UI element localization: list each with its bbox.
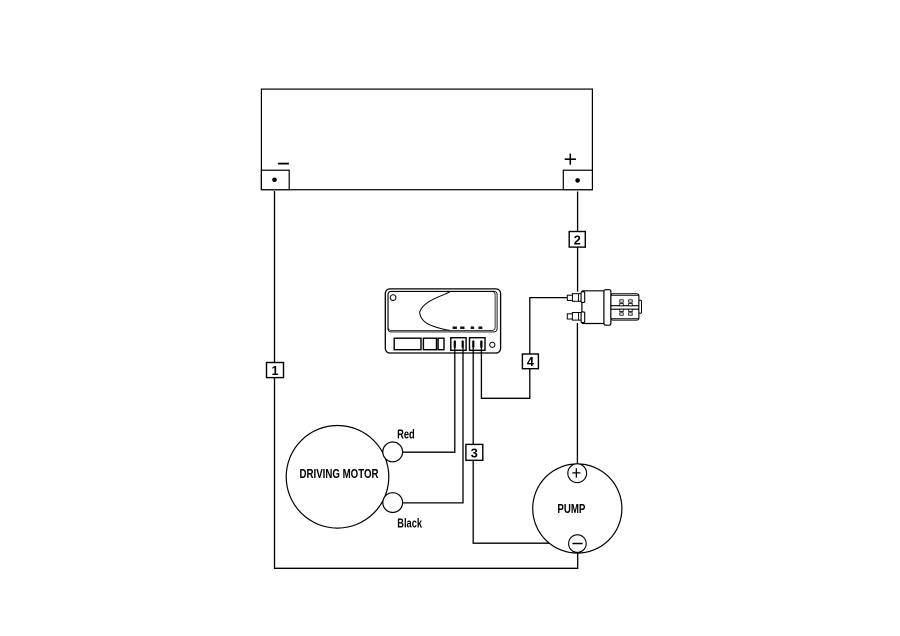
battery minus label (278, 163, 289, 165)
solenoid K1 coil terminal clip lower-left (620, 309, 623, 311)
solenoid K1 middle band bottom line (611, 308, 639, 310)
controller pin M1 (454, 340, 456, 348)
solenoid K1 coil cylinder (611, 294, 639, 320)
solenoid K1 bottom stud tip (567, 314, 572, 319)
solenoid K1 coil terminal clip upper-right (629, 300, 633, 302)
controller terminal block B (470, 338, 486, 351)
label 2 box (569, 232, 585, 248)
wire battery negative to pump negative (275, 191, 578, 568)
controller pin B+ (480, 340, 482, 348)
label 3 box (466, 444, 483, 460)
wire controller B+ to solenoid top stud (481, 298, 567, 399)
battery negative terminal box (261, 170, 289, 190)
controller top panel inner line (388, 292, 495, 331)
label 4 box (522, 354, 538, 369)
solenoid K1 coil terminal clip lower-right (629, 309, 633, 311)
wire controller B- to pump negative (473, 347, 569, 543)
controller pin name M2 (460, 327, 464, 330)
pump positive terminal circle (568, 464, 587, 483)
solenoid K1 main body (582, 291, 604, 324)
svg-text:DRIVING MOTOR: DRIVING MOTOR (300, 466, 379, 481)
solenoid K1 coil top inner line (611, 294, 639, 296)
controller slot 2 (423, 338, 436, 350)
solenoid K1 mounting bracket (604, 290, 611, 326)
svg-text:2: 2 (574, 233, 581, 247)
battery negative terminal dot (272, 178, 277, 183)
driving motor M1 circle (286, 426, 389, 529)
battery positive terminal box (563, 170, 592, 190)
pump positive terminal plus sign (572, 468, 580, 477)
battery plus label (565, 154, 576, 165)
wire controller M1 to motor red terminal (403, 347, 455, 452)
controller slot 3 (438, 338, 444, 350)
solenoid K1 middle band top line (611, 305, 639, 307)
svg-text:1: 1 (271, 364, 278, 378)
controller pin name M1 (453, 327, 457, 330)
controller pin M2 (462, 340, 464, 348)
pump negative terminal minus sign (573, 543, 583, 545)
controller decorative curve (420, 292, 450, 331)
solenoid K1 top stud plate (581, 292, 585, 303)
solenoid K1 top stud nut (572, 294, 581, 302)
pump motor circle (533, 464, 622, 553)
svg-text:Red: Red (397, 428, 415, 442)
motor red terminal (383, 442, 403, 462)
controller slot 1 (394, 338, 421, 350)
controller top panel outer line (388, 291, 497, 332)
controller pin name B+ (479, 327, 483, 330)
solenoid K1 right end cap (639, 300, 642, 313)
solenoid K1 bottom stud nut divider (578, 313, 580, 321)
motor black terminal (383, 493, 403, 513)
solenoid K1 bottom stud plate (581, 312, 585, 323)
controller U1 body (385, 289, 500, 353)
solenoid K1 top stud tip (567, 295, 572, 300)
svg-text:3: 3 (471, 446, 478, 460)
controller screw hole top-left (390, 295, 396, 301)
solenoid K1 coil bottom inner line (611, 318, 639, 320)
pump negative terminal circle (569, 535, 587, 553)
controller screw hole bottom-right (490, 342, 495, 347)
controller pin B- (472, 340, 474, 348)
svg-text:PUMP: PUMP (557, 501, 585, 516)
wire solenoid bottom stud to pump positive (576, 323, 578, 465)
solenoid K1 top stud nut divider (578, 294, 580, 302)
label 1 box (267, 363, 284, 378)
wire controller M2 to motor black terminal (403, 347, 463, 503)
solenoid K1 coil terminal clip upper-left (620, 300, 623, 302)
controller pin name B- (471, 327, 474, 330)
controller terminal block A (451, 338, 466, 351)
battery B1 outline (261, 89, 592, 190)
solenoid K1 bottom stud nut (572, 313, 581, 321)
svg-text:4: 4 (527, 355, 534, 369)
wire battery positive down to solenoid top stud (577, 192, 579, 292)
battery positive terminal dot (575, 178, 580, 183)
svg-text:Black: Black (397, 516, 422, 530)
